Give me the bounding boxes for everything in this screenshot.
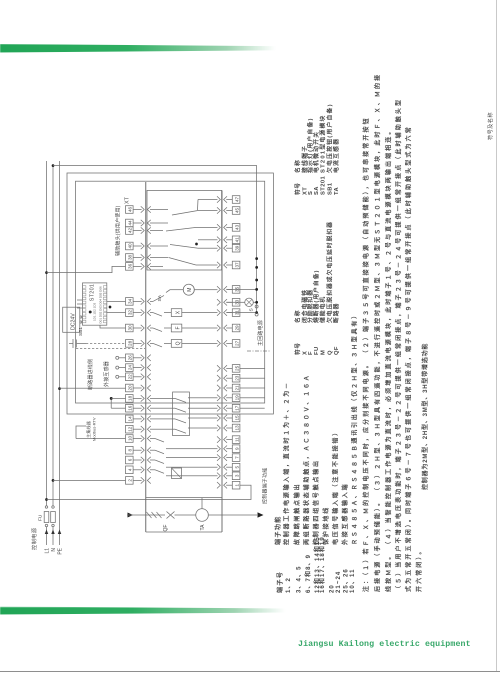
svg-text:外接互感器: 外接互感器 bbox=[103, 361, 110, 387]
svg-text:控制电源: 控制电源 bbox=[30, 527, 38, 550]
terminal 25 bbox=[217, 365, 240, 373]
svg-text:PE: PE bbox=[57, 547, 63, 554]
wire DC24V to module bbox=[77, 300, 83, 323]
label Modbus 主集线器 bbox=[85, 417, 97, 441]
svg-text:45: 45 bbox=[234, 208, 239, 214]
terminal 14 bbox=[126, 415, 151, 423]
frame inner breaker enclosure bbox=[76, 181, 265, 403]
svg-text:符号及名称: 符号及名称 bbox=[486, 112, 494, 140]
label S bbox=[249, 308, 255, 311]
terminal 6 bbox=[126, 456, 151, 464]
terminal 2 bbox=[126, 477, 151, 485]
breaker QF contact bbox=[167, 512, 175, 519]
terminal 28 bbox=[126, 340, 151, 348]
terminal 4 bbox=[126, 466, 151, 474]
svg-text:X: X bbox=[175, 310, 181, 314]
label SA bbox=[157, 294, 163, 301]
svg-text:SB1: SB1 bbox=[327, 182, 333, 195]
terminal 36 bbox=[126, 263, 151, 271]
terminal 37 bbox=[217, 261, 240, 269]
svg-text:20: 20 bbox=[128, 385, 133, 391]
svg-text:控制器工作电源输入端，直流时１为＋、２为－: 控制器工作电源输入端，直流时１为＋、２为－ bbox=[283, 381, 291, 545]
svg-text:D01 D02 D03 D04 D05 D06: D01 D02 D03 D04 D05 D06 bbox=[99, 286, 103, 324]
svg-text:Modbus-RTV: Modbus-RTV bbox=[92, 417, 97, 441]
svg-text:ST201: ST201 bbox=[90, 284, 96, 301]
svg-text:18: 18 bbox=[128, 395, 133, 401]
svg-text:14: 14 bbox=[128, 416, 133, 422]
svg-text:符号: 符号 bbox=[294, 343, 302, 355]
svg-text:36: 36 bbox=[128, 263, 133, 269]
svg-text:式为五常开五常闭）。同时端子６号－７号也可提供一组常闭接点，: 式为五常开五常闭）。同时端子６号－７号也可提供一组常闭接点，端子８号－９号可提供… bbox=[405, 125, 413, 592]
svg-text:储能电机: 储能电机 bbox=[318, 296, 326, 324]
svg-text:L1: L1 bbox=[44, 548, 50, 554]
arrow N input bbox=[51, 530, 55, 535]
arrow main supply in bbox=[128, 513, 134, 518]
terminal 24 bbox=[126, 364, 151, 372]
page right edge line bbox=[496, 0, 497, 672]
terminal 32 bbox=[126, 309, 151, 317]
fuse FU on L1 bbox=[44, 506, 49, 527]
fuse FU on N bbox=[51, 506, 56, 527]
svg-text:辅助触头(供用户使用): 辅助触头(供用户使用) bbox=[115, 205, 122, 256]
svg-text:3、4、5: 3、4、5 bbox=[297, 565, 303, 593]
svg-text:线按Ｍ型。 （４）当智能控制器工作电源为直流时，必须增加直流: 线按Ｍ型。 （４）当智能控制器工作电源为直流时，必须增加直流电源模块，此时端子１… bbox=[385, 127, 393, 592]
svg-text:43: 43 bbox=[234, 224, 239, 230]
svg-text:名称: 名称 bbox=[294, 309, 302, 323]
svg-text:5: 5 bbox=[234, 465, 239, 468]
svg-text:4: 4 bbox=[128, 468, 133, 471]
svg-text:N: N bbox=[51, 548, 57, 552]
terminal 21 bbox=[217, 384, 240, 392]
arrow main out bbox=[258, 512, 264, 517]
svg-text:断路器进线侧: 断路器进线侧 bbox=[87, 359, 94, 390]
svg-text:22: 22 bbox=[128, 374, 133, 380]
box aux contacts bbox=[147, 190, 222, 270]
wire N to terminal 2 bbox=[52, 479, 126, 482]
svg-text:11: 11 bbox=[234, 437, 239, 442]
footer company name bbox=[298, 640, 498, 649]
page bottom rule bbox=[0, 671, 500, 672]
terminal 22 bbox=[126, 373, 151, 381]
terminal 39 bbox=[217, 244, 240, 252]
arrow PE input bbox=[58, 530, 62, 535]
terminal 30 bbox=[126, 324, 151, 332]
svg-text:电流互感器: 电流互感器 bbox=[332, 138, 340, 173]
terminal 20 bbox=[126, 384, 151, 392]
svg-text:44: 44 bbox=[128, 220, 133, 226]
wire SB1 to terminal 28 dashed bbox=[86, 343, 126, 345]
svg-text:16: 16 bbox=[128, 405, 133, 411]
svg-text:13: 13 bbox=[234, 425, 239, 431]
module ST201 bbox=[83, 283, 107, 325]
label aux contacts 辅助触头 bbox=[115, 205, 122, 256]
terminal 38 bbox=[126, 254, 151, 262]
wire N branch indicators bbox=[52, 164, 257, 312]
contact group controller outputs bbox=[150, 439, 218, 476]
svg-text:电压信号输入端（注意不能接错）: 电压信号输入端（注意不能接错） bbox=[332, 428, 340, 545]
svg-text:FU: FU bbox=[38, 514, 44, 521]
svg-text:20: 20 bbox=[329, 584, 335, 593]
wire module to terminal 30 bbox=[100, 325, 126, 328]
svg-text:端子号: 端子号 bbox=[276, 571, 284, 593]
svg-text:2: 2 bbox=[128, 479, 133, 482]
wire PE to terminal 20 bbox=[60, 387, 126, 389]
svg-text:QF: QF bbox=[334, 346, 340, 355]
terminal 27 bbox=[217, 340, 240, 348]
terminal 23 bbox=[217, 374, 240, 382]
terminal 33 bbox=[217, 299, 240, 307]
terminal 1 bbox=[217, 481, 240, 489]
svg-text:23: 23 bbox=[234, 375, 239, 381]
svg-text:25、26: 25、26 bbox=[343, 568, 349, 593]
label FU bbox=[38, 514, 44, 521]
svg-text:符号: 符号 bbox=[294, 183, 302, 195]
line main power dashdot bbox=[247, 350, 271, 352]
wire L1 branch module bbox=[45, 266, 125, 274]
svg-text:7: 7 bbox=[234, 456, 239, 459]
table terminal functions bbox=[274, 311, 359, 546]
frame QF compartment left bbox=[146, 531, 222, 533]
svg-text:FU: FU bbox=[314, 346, 320, 355]
svg-text:M: M bbox=[187, 288, 193, 292]
bottom green gradient bar bbox=[0, 607, 294, 615]
svg-text:SB1: SB1 bbox=[78, 327, 84, 336]
label TA bbox=[200, 524, 206, 531]
CT TA bbox=[196, 509, 209, 522]
svg-text:46: 46 bbox=[128, 207, 133, 213]
contact box position signals bbox=[150, 392, 218, 436]
label 断路器进线侧 bbox=[87, 359, 94, 390]
line user boundary dashed bbox=[76, 348, 145, 350]
svg-text:10: 10 bbox=[128, 436, 133, 442]
label PE bbox=[57, 547, 63, 554]
terminal 40 bbox=[126, 242, 151, 250]
terminal 31 bbox=[217, 309, 240, 317]
terminal 15 bbox=[217, 414, 240, 422]
terminal 8 bbox=[126, 446, 151, 454]
svg-text:两组断路器状态辅助触点，ＡＣ３８０Ｖ、１６Ａ: 两组断路器状态辅助触点，ＡＣ３８０Ｖ、１６Ａ bbox=[303, 373, 311, 545]
wire main line lower bbox=[208, 514, 257, 516]
terminal 3 bbox=[217, 472, 240, 480]
svg-text:端子功能: 端子功能 bbox=[274, 515, 282, 545]
svg-text:6、7和8、9: 6、7和8、9 bbox=[304, 554, 312, 593]
svg-text:24: 24 bbox=[128, 365, 133, 371]
coil F bbox=[150, 324, 218, 332]
svg-text:XT: XT bbox=[125, 196, 131, 204]
3-phase slash marks bbox=[147, 512, 162, 518]
svg-text:29: 29 bbox=[234, 325, 239, 331]
power DC24V box bbox=[63, 307, 80, 332]
label SB1 bbox=[78, 327, 84, 336]
button SB1 bbox=[69, 339, 86, 348]
wire X to N line bbox=[227, 311, 259, 314]
frame outer breaker enclosure bbox=[67, 173, 273, 414]
svg-text:38: 38 bbox=[128, 255, 133, 261]
svg-text:开六常闭）。: 开六常闭）。 bbox=[415, 546, 423, 592]
coil X bbox=[150, 309, 218, 317]
terminal 13 bbox=[217, 424, 240, 432]
terminal 35 bbox=[217, 286, 240, 294]
svg-text:S: S bbox=[249, 308, 255, 311]
wire upper disconnect bus bbox=[145, 182, 147, 532]
node N line dots bbox=[255, 257, 258, 281]
wire M to N line bbox=[227, 288, 259, 291]
svg-text:保护接地线: 保护接地线 bbox=[322, 506, 330, 546]
svg-text:40: 40 bbox=[128, 243, 133, 249]
terminal 47 bbox=[217, 196, 240, 204]
svg-text:1: 1 bbox=[234, 483, 239, 486]
svg-text:8: 8 bbox=[128, 448, 133, 451]
terminal 46 bbox=[126, 206, 151, 214]
terminal 11 bbox=[217, 436, 240, 444]
lamp S bbox=[227, 298, 259, 306]
svg-text:主回路电源: 主回路电源 bbox=[257, 320, 264, 346]
terminal 12 bbox=[126, 425, 151, 433]
svg-text:10、11: 10、11 bbox=[350, 568, 356, 593]
terminal 5 bbox=[217, 463, 240, 471]
table symbols 2 bbox=[294, 103, 340, 195]
label L1 bbox=[44, 548, 50, 554]
svg-text:故障跳闸触点输出: 故障跳闸触点输出 bbox=[293, 483, 301, 545]
svg-text:熔断器(用户自备): 熔断器(用户自备) bbox=[312, 270, 320, 323]
svg-text:控制器四组信号触点输出: 控制器四组信号触点输出 bbox=[312, 459, 320, 545]
motor M bbox=[150, 284, 218, 301]
label control power 控制电源 bbox=[30, 527, 38, 550]
terminal 29 bbox=[217, 324, 240, 332]
terminal 42 bbox=[126, 227, 151, 235]
svg-text:后接电源（手动预储能）。 （３）２Ｈ型、３Ｈ型具有四遥功能，: 后接电源（手动预储能）。 （３）２Ｈ型、３Ｈ型具有四遥功能，不进行遥控时或２Ｍ型… bbox=[374, 73, 382, 592]
svg-text:19: 19 bbox=[234, 395, 239, 401]
terminal 16 bbox=[126, 404, 151, 412]
svg-text:25: 25 bbox=[234, 365, 239, 371]
label XT bbox=[125, 196, 131, 204]
svg-text:47: 47 bbox=[234, 197, 239, 203]
svg-text:Q: Q bbox=[327, 350, 333, 355]
wire main line mid bbox=[175, 514, 196, 516]
svg-text:DC24V: DC24V bbox=[71, 313, 77, 330]
terminal 41 bbox=[217, 236, 240, 244]
svg-text:外接互感器输入端: 外接互感器输入端 bbox=[341, 483, 349, 546]
wire rail N bbox=[52, 166, 54, 545]
wire rail L1 bbox=[46, 161, 48, 545]
svg-text:ST201型电源模块: ST201型电源模块 bbox=[318, 114, 326, 173]
wire lower disconnect bus bbox=[221, 190, 223, 532]
svg-text:QF: QF bbox=[163, 525, 169, 532]
svg-text:32: 32 bbox=[128, 310, 133, 316]
svg-text:TA: TA bbox=[334, 186, 340, 195]
svg-text:控制器端子功能: 控制器端子功能 bbox=[262, 468, 269, 504]
svg-text:17: 17 bbox=[234, 405, 239, 411]
table terminal numbers bbox=[276, 536, 356, 593]
svg-text:21: 21 bbox=[234, 385, 239, 391]
svg-text:SA: SA bbox=[157, 294, 163, 301]
terminal 34 bbox=[126, 298, 151, 306]
node CT input circles bbox=[116, 356, 126, 378]
terminal 19 bbox=[217, 394, 240, 402]
svg-text:M: M bbox=[320, 350, 326, 355]
terminal 45 bbox=[217, 207, 240, 215]
wire rail PE bbox=[58, 161, 61, 545]
svg-text:42: 42 bbox=[128, 228, 133, 234]
svg-text:分励脱扣器: 分励脱扣器 bbox=[306, 289, 314, 323]
label 主回路电源 bbox=[257, 320, 264, 346]
svg-text:Q: Q bbox=[175, 341, 181, 345]
terminal 9 bbox=[217, 445, 240, 453]
wire Modbus stub bbox=[76, 426, 126, 439]
wire module to terminal 34 bbox=[107, 300, 126, 302]
terminal 44 bbox=[126, 219, 151, 227]
relay trip coil box bbox=[172, 468, 182, 479]
svg-text:控制器为2M型、2H型、3M型、3H型带增选功能: 控制器为2M型、2H型、3M型、3H型带增选功能 bbox=[421, 343, 429, 490]
svg-text:12: 12 bbox=[128, 426, 133, 432]
svg-text:27: 27 bbox=[234, 340, 239, 346]
terminal 7 bbox=[217, 454, 240, 462]
svg-text:F: F bbox=[175, 326, 181, 329]
svg-text:3: 3 bbox=[234, 474, 239, 477]
wire signal outputs down bbox=[240, 368, 265, 408]
svg-text:15: 15 bbox=[234, 415, 239, 421]
svg-text:37: 37 bbox=[234, 262, 239, 268]
svg-text:欠电压脱扣器或欠电压延时脱扣器: 欠电压脱扣器或欠电压延时脱扣器 bbox=[325, 221, 333, 323]
terminal 18 bbox=[126, 395, 151, 403]
svg-text:TA: TA bbox=[200, 524, 206, 531]
wire module to terminal 32 bbox=[107, 306, 126, 313]
svg-text:（５）当用户不增选电压表功能时，端子２３号－２２号可提供一组: （５）当用户不增选电压表功能时，端子２３号－２２号可提供一组常闭接点，端子２３号… bbox=[395, 98, 403, 592]
frame QF compartment right bbox=[146, 497, 222, 499]
label 外接互感器 bbox=[103, 361, 110, 387]
wire TA secondary bbox=[201, 498, 203, 509]
arrow L1 input bbox=[45, 530, 49, 535]
notes text bbox=[362, 73, 423, 592]
terminal 26 bbox=[126, 354, 151, 362]
svg-text:34: 34 bbox=[128, 298, 133, 304]
wire main line upper bbox=[127, 514, 165, 516]
svg-text:39: 39 bbox=[234, 245, 239, 251]
caption 符号及名称 bbox=[486, 112, 494, 140]
svg-text:9: 9 bbox=[234, 447, 239, 450]
terminal 10 bbox=[126, 435, 151, 443]
label N bbox=[51, 548, 57, 552]
svg-text:21~24: 21~24 bbox=[336, 571, 342, 593]
svg-text:SA: SA bbox=[314, 186, 320, 195]
svg-text:ST201: ST201 bbox=[320, 176, 326, 195]
terminal 43 bbox=[217, 224, 240, 232]
svg-text:注：（１）若Ｆ、Ｘ、Ｍ的控制电压不同时，应分别接不同电源。: 注：（１）若Ｆ、Ｘ、Ｍ的控制电压不同时，应分别接不同电源。 （２）端子３５号可直… bbox=[362, 116, 370, 592]
contact group aux bbox=[150, 200, 218, 267]
terminal 17 bbox=[217, 404, 240, 412]
notes model line bbox=[421, 343, 429, 490]
node main power circles bbox=[255, 305, 258, 316]
svg-text:名称: 名称 bbox=[294, 159, 302, 173]
svg-text:30: 30 bbox=[128, 325, 133, 331]
svg-text:ＲＳ４８５Ａ、ＲＳ４８５Ｂ通讯引出线（仅２Ｈ型、３Ｈ型具有）: ＲＳ４８５Ａ、ＲＳ４８５Ｂ通讯引出线（仅２Ｈ型、３Ｈ型具有） bbox=[351, 311, 359, 545]
coil Q bbox=[150, 340, 218, 348]
svg-text:1、2: 1、2 bbox=[286, 577, 292, 593]
label 控制器端子功能 bbox=[262, 468, 269, 504]
svg-text:6: 6 bbox=[128, 458, 133, 461]
svg-text:欠电压按钮(用户自备): 欠电压按钮(用户自备) bbox=[325, 103, 333, 173]
label QF bbox=[163, 525, 169, 532]
svg-text:断路器: 断路器 bbox=[332, 303, 340, 323]
svg-text:1D1 1D2 1D3: 1D1 1D2 1D3 bbox=[92, 302, 96, 321]
svg-text:电机微动开关: 电机微动开关 bbox=[312, 131, 320, 173]
wire L1 to terminal 1 bbox=[45, 485, 251, 501]
svg-text:41: 41 bbox=[234, 237, 239, 243]
top green gradient bar bbox=[0, 44, 284, 53]
table symbols 1 bbox=[294, 221, 340, 355]
wire bridge 16-18 bbox=[110, 397, 126, 408]
svg-text:28: 28 bbox=[128, 340, 133, 346]
svg-text:26: 26 bbox=[128, 355, 133, 361]
svg-text:指示灯(用户自备): 指示灯(用户自备) bbox=[306, 117, 314, 173]
